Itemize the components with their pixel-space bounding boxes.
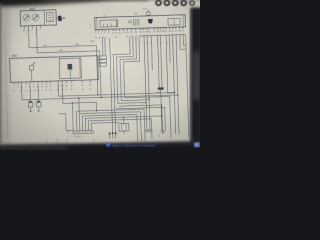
wire C to connector stack [101,38,104,56]
wire RC1 [158,36,160,87]
ground G4 [148,130,152,133]
node n4-X22 [123,117,124,118]
wire J3 [119,36,149,100]
nested wire n2 branch [79,112,141,143]
wire P2 [116,107,165,132]
wire W64 [59,113,73,130]
gauge G1 [23,14,30,21]
caption right blob [194,143,199,147]
wire N0 [71,103,74,131]
sensor S1 inside U1 [29,62,35,82]
U2 inner relay box [100,19,118,27]
bus B2 [22,80,178,100]
node B1-VR1 [174,92,175,93]
fuse/relay box U2 (top right) [95,15,186,30]
vignette [0,0,200,150]
wire J1 [113,37,133,133]
nested wire n3 [82,114,137,143]
wire Wb cluster to bus B2 [37,26,102,99]
U1 wire codes row2 [13,88,91,92]
wire M8 down [161,116,163,131]
left margin line [5,29,8,139]
nested wire n5 [88,119,152,141]
connector stack X3 [99,56,107,67]
nested wire n6 [91,122,119,130]
wire stub S152 [151,36,152,70]
node H3 dot [72,102,73,103]
node n1-H3 [96,110,97,111]
diagram group, slight photo tilt [4,3,189,145]
sub-module B2 inside U1 [59,58,81,79]
gauge G2 [32,14,39,21]
instrument cluster P1 [20,10,56,26]
wire VG1 [144,37,147,130]
node B2-n2 [78,97,80,99]
wire J4 [123,36,171,140]
ground G3 [145,130,149,133]
nested wire n1 [76,109,145,143]
node J3-VG2 [149,99,150,100]
wire J2 [116,37,146,104]
lamp L1 [129,20,132,23]
wire L184 [183,35,186,45]
connector XB [67,131,93,139]
photo dark borders [0,0,206,156]
wire L181 [180,35,186,49]
bottom faint wire ends [47,138,94,144]
nested wire n2 vertical from bus B2 [79,98,80,131]
U2 wire code row [95,34,184,39]
cluster pin stubs [24,25,40,28]
fuse F1 [26,85,33,112]
node B2-VR2 [177,94,178,95]
wire RC2 [160,36,162,87]
right page edge line [190,9,191,145]
U2 pin number row [95,31,184,36]
bus H3 [62,83,96,112]
wire V167 [166,36,174,93]
wire P1 [119,105,163,132]
top dark band (fades to the right) [0,0,150,7]
right dark band [191,8,202,148]
ground G5 [160,131,165,134]
wire H34 to right edge [140,34,189,138]
node Wa-B1 dot [97,94,98,95]
U1 pin labels row1 [13,85,91,89]
left page edge shade [0,4,1,144]
wire D to connector stack [104,38,107,56]
connector pin ends [109,132,117,138]
U2 inner switch box [168,18,180,25]
nested wire n4 [85,116,162,131]
node Wb-B2 dot [100,97,101,98]
caption icon [106,143,110,147]
keyboard keys top right [146,0,202,5]
wire stub S170 [168,36,171,63]
U2 top tab T1 [147,10,151,16]
connector K20 [56,15,65,21]
bottom dark band [0,141,206,156]
node M8 dot [161,115,163,117]
cluster pin labels [23,30,41,35]
bus B1 [58,80,174,96]
wire X22 to box BB [123,117,125,123]
U2 hatch contacts [133,19,139,26]
wire VG2 [147,36,150,129]
third label row [142,42,181,45]
ECU box U1 [10,56,99,83]
wire Wa cluster to bus B1 [29,27,98,98]
fuse F2 [34,84,41,111]
wire VR2 [176,36,179,134]
relay coil blob [148,19,153,24]
U2 pin stubs row [96,27,183,32]
component M8 (sensor) [157,87,164,116]
node J2-VG1 [145,102,146,103]
wire SV0 [110,38,113,133]
U1 pin stubs [14,80,90,85]
component BB [119,123,129,134]
wire VR1 [173,36,176,134]
page background [0,0,200,150]
